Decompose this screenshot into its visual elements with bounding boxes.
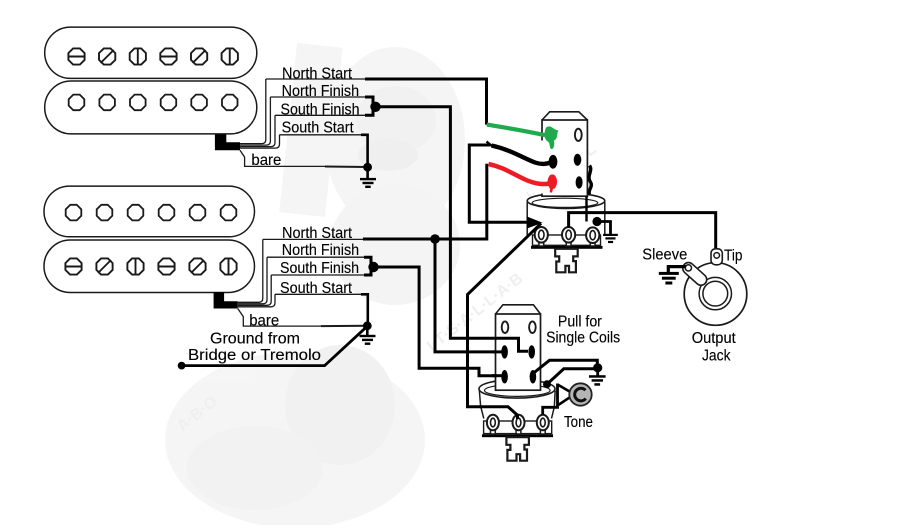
wire: overlay bridge series link into tone row3 left — [492, 374, 503, 377]
junction: volume case ground dot — [592, 217, 601, 226]
output jack body — [684, 249, 747, 326]
capacitor C body — [569, 383, 591, 405]
volume pot lug 2 (wiper) — [562, 227, 575, 246]
wire: bridge north finish step — [364, 257, 371, 267]
wire: overlay neck link into tone row2 right — [495, 338, 528, 351]
wire: bridge south finish lead — [238, 275, 272, 305]
tone switch terminal top-right (empty) — [529, 321, 536, 333]
wire: bridge bare lead — [238, 309, 322, 327]
svg-text:Sleeve: Sleeve — [642, 247, 687, 264]
wire: red bridge hot into switch bottom-left — [489, 164, 558, 191]
wire: overlay bridge hot into tone row2 left — [492, 350, 503, 353]
wire: bridge bare to ground — [321, 325, 367, 327]
svg-text:North Finish: North Finish — [282, 83, 360, 100]
volume switch terminal bottom-right — [576, 176, 583, 188]
svg-text:Ground from: Ground from — [210, 330, 300, 347]
wire: bridge south finish step — [364, 267, 371, 275]
wire: tone case to ground dot — [547, 369, 596, 384]
junction: bridge hot node — [430, 234, 440, 244]
wire: neck series link to tone switch (thick) — [376, 107, 529, 351]
tone pot lug 3 — [537, 415, 549, 434]
wire: volume wiper to output jack tip — [569, 213, 716, 251]
junction: tone ground dot — [593, 363, 602, 372]
tone switch terminal mid-left — [501, 345, 508, 358]
wire: bridge series link to tone switch row3 left — [371, 267, 503, 376]
tone pot lug 1 — [487, 415, 499, 434]
wire: black jumper from switch mid-left to pot case — [469, 142, 542, 229]
tone switch terminal bottom-left — [501, 370, 508, 383]
tone pot lug 2 (wiper) — [513, 415, 525, 434]
ground: tone switch — [589, 368, 606, 386]
tone switch terminal bottom-right — [530, 370, 537, 383]
tone pot shaft — [506, 437, 529, 461]
svg-text:South Finish: South Finish — [280, 260, 359, 277]
svg-text:Output: Output — [692, 330, 737, 347]
potentiometer: tone pot body — [479, 380, 555, 438]
neck pickup cable connector — [215, 135, 240, 151]
junction: neck ground node — [363, 163, 372, 172]
svg-text:Bridge or Tremolo: Bridge or Tremolo — [188, 347, 321, 364]
svg-text:Pull for: Pull for — [558, 314, 602, 331]
junction: bridge series link — [368, 262, 378, 272]
tone switch terminal mid-right — [528, 345, 535, 358]
svg-text:Tone: Tone — [564, 414, 593, 431]
wire: neck north start lead — [240, 79, 266, 144]
ground: bridge pickup — [360, 326, 376, 345]
wire: bridge north finish lead — [238, 257, 267, 304]
wire: neck north finish label line — [270, 96, 366, 98]
svg-text:Single Coils: Single Coils — [546, 330, 620, 347]
bridge pickup screw poles — [65, 258, 237, 276]
node: ground from bridge terminal dot — [178, 362, 186, 370]
svg-text:bare: bare — [249, 312, 279, 329]
svg-text:Jack: Jack — [702, 348, 731, 365]
capacitor C lead funnel — [543, 384, 570, 415]
wire: volume case to tone pot (thick diagonal) — [468, 223, 542, 419]
wire: neck north start to volume switch (thick) — [365, 79, 487, 125]
svg-text:South Start: South Start — [280, 280, 353, 297]
wire: neck north finish lead — [240, 97, 270, 145]
wire: ground from bridge or tremolo — [182, 326, 368, 365]
wire: neck bare lead — [240, 150, 326, 166]
junction: bridge ground node — [363, 321, 372, 330]
svg-text:Tip: Tip — [724, 247, 743, 264]
wire: neck north start label line — [266, 78, 366, 80]
svg-text:South Finish: South Finish — [281, 101, 360, 118]
neck pickup slug poles — [69, 95, 238, 111]
wire: green neck hot into switch top-left — [487, 125, 559, 150]
svg-text:North Start: North Start — [282, 65, 353, 82]
volume pot lug 3 — [586, 227, 599, 246]
junction: neck series link — [370, 102, 380, 112]
white-out smudges over volume switch — [528, 100, 571, 194]
wire: bridge north start label line — [263, 238, 364, 240]
volume switch terminal mid-right — [574, 154, 582, 166]
wire: bridge south start label line — [275, 293, 362, 295]
switch: tone push-pull box — [496, 305, 541, 390]
pickup: bridge humbucker body — [44, 186, 255, 292]
wire: neck south start down to ground — [361, 135, 368, 167]
bridge pickup cable connector — [214, 292, 238, 309]
wire: bridge north finish label line — [267, 256, 365, 258]
wire: bridge south finish label line — [271, 274, 365, 276]
volume switch terminal top-right (empty) — [575, 129, 582, 141]
pickup: neck humbucker body — [45, 27, 257, 134]
svg-text:bare: bare — [251, 152, 281, 169]
ground: neck pickup — [360, 167, 376, 188]
wire: volume case scribble to ground lug — [589, 166, 591, 195]
wire: bridge north start lead — [238, 239, 263, 302]
svg-text:North Finish: North Finish — [282, 242, 360, 259]
wire: neck south finish label line — [275, 114, 366, 116]
switch: volume push-pull box — [542, 112, 587, 196]
wire: neck south finish step — [365, 107, 373, 116]
wire: neck south start label line — [280, 134, 363, 136]
ground: volume pot case — [597, 222, 618, 244]
wire: bridge south start lead — [238, 294, 275, 307]
wire: sleeve to ground — [659, 267, 686, 285]
tone switch terminal top-left (empty) — [502, 321, 509, 333]
volume pot lug 1 — [535, 227, 548, 246]
output jack sleeve lug — [680, 260, 709, 287]
wire: neck south start lead — [240, 135, 280, 148]
svg-text:South Start: South Start — [282, 119, 355, 136]
wire: bridge hot to tone switch row2 left — [435, 239, 503, 352]
wire: neck north finish step — [365, 97, 373, 107]
neck pickup screw poles — [68, 48, 238, 66]
wire: neck south finish lead — [240, 115, 275, 146]
wire: bridge north start to tone switch and volume (thick) — [363, 164, 487, 239]
junction: tone case solder dot — [543, 380, 551, 388]
wire: neck bare to ground — [325, 166, 368, 169]
bridge pickup slug poles — [66, 205, 237, 221]
wire: black curvy wire to switch mid-left terminal — [492, 146, 558, 169]
volume pot shaft — [555, 249, 578, 272]
potentiometer: volume pot body — [527, 193, 605, 249]
svg-text:North Start: North Start — [282, 225, 353, 242]
wire: tone row3 right to ground — [533, 360, 597, 373]
wire: bridge south start down to ground — [361, 294, 368, 325]
